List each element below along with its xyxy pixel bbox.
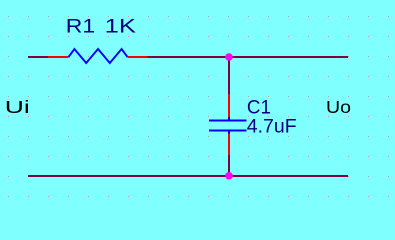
wire: top junction node to output Uo bbox=[229, 56, 348, 58]
svg-text:1K: 1K bbox=[105, 16, 136, 38]
wire: bottom rail right (Uo return) bbox=[229, 175, 348, 177]
wire: R1 pin 2 to top junction node bbox=[147, 56, 229, 58]
svg-text:4.7uF: 4.7uF bbox=[247, 116, 297, 138]
svg-text:R1: R1 bbox=[66, 16, 95, 38]
junction (top node) bbox=[225, 53, 233, 61]
capacitor C1 bbox=[209, 94, 247, 156]
wire: C1 pin 2 to bottom junction bbox=[228, 155, 230, 176]
junction (bottom node) bbox=[225, 172, 233, 180]
svg-text:Uo: Uo bbox=[326, 97, 351, 117]
resistor R1 bbox=[48, 49, 148, 63]
wire: Ui input to R1 pin 1 (top left) bbox=[28, 56, 49, 58]
wire: top junction down to C1 pin 1 bbox=[228, 57, 230, 95]
svg-text:Ui: Ui bbox=[5, 97, 30, 117]
wire: bottom rail left (Ui return) bbox=[28, 175, 229, 177]
